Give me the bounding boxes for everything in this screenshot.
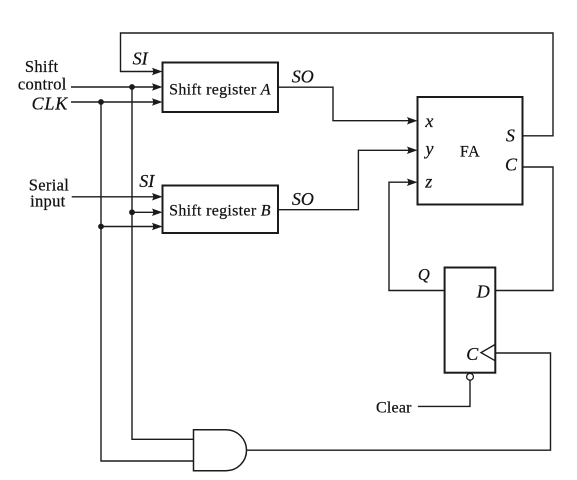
D flip-flop box — [445, 268, 496, 373]
arrowhead into FA x input — [407, 117, 418, 125]
svg-text:control: control — [18, 75, 67, 94]
svg-text:Shift register B: Shift register B — [169, 203, 271, 220]
junction dot shift control at register A — [129, 84, 135, 90]
svg-text:CLK: CLK — [32, 93, 69, 113]
wire CLK vertical branch to AND gate — [101, 102, 194, 461]
svg-text:C: C — [466, 344, 479, 364]
svg-text:S: S — [506, 126, 515, 146]
wire C output of FA to D input of flip-flop — [495, 167, 553, 291]
svg-text:SI: SI — [139, 171, 155, 191]
wire SO of register B to y input of FA — [278, 150, 413, 209]
full adder FA box — [418, 97, 523, 205]
wire serial input to SI of register B — [72, 196, 158, 198]
flip-flop clear bubble — [467, 373, 474, 380]
arrowhead into register A middle input — [152, 83, 163, 91]
svg-text:z: z — [424, 172, 432, 192]
svg-text:FA: FA — [460, 144, 480, 161]
wire Clear to flip-flop bubble — [418, 380, 470, 406]
svg-text:x: x — [424, 111, 433, 131]
AND gate G1 — [194, 430, 247, 471]
wire Q of flip-flop to z input of FA — [389, 182, 445, 290]
svg-text:SO: SO — [292, 67, 314, 87]
wire CLK horizontal — [71, 101, 158, 103]
junction dot shift control at register B — [129, 209, 135, 215]
arrowhead into FA z input — [407, 178, 418, 186]
svg-text:y: y — [424, 139, 434, 159]
arrowhead into register B middle input — [152, 209, 163, 217]
svg-text:input: input — [30, 192, 66, 211]
arrowhead into FA y input — [407, 147, 418, 155]
shift register B box — [163, 186, 279, 234]
arrowhead into register B SI input — [152, 193, 163, 201]
arrowhead into register A SI input — [152, 68, 163, 76]
svg-text:D: D — [476, 281, 490, 301]
junction dot CLK at register A — [98, 99, 104, 105]
junction dot CLK at register B — [98, 224, 104, 230]
wire AND gate output to C clock input of flip-flop — [247, 353, 551, 450]
shift register A box — [163, 63, 279, 113]
svg-text:Clear: Clear — [376, 400, 412, 417]
arrowhead into register B bottom input — [152, 223, 163, 231]
svg-text:C: C — [505, 154, 518, 174]
svg-text:SO: SO — [292, 189, 314, 209]
wire branch CLK to register B bottom input — [101, 226, 158, 228]
svg-text:SI: SI — [133, 49, 149, 69]
svg-text:Shift: Shift — [25, 57, 59, 76]
wire shift control vertical branch to AND gate — [132, 87, 194, 439]
wire SO of register A to x input of FA — [278, 87, 413, 121]
wire S output of FA to top feedback into SI of register A — [121, 33, 554, 136]
svg-text:Shift register A: Shift register A — [169, 82, 271, 99]
wire branch shift control to register B middle input — [132, 211, 158, 213]
svg-text:Q: Q — [418, 265, 430, 284]
arrowhead into register A bottom input — [152, 98, 163, 106]
flip-flop clock edge triangle — [481, 344, 495, 360]
wire shift control horizontal — [71, 86, 158, 88]
